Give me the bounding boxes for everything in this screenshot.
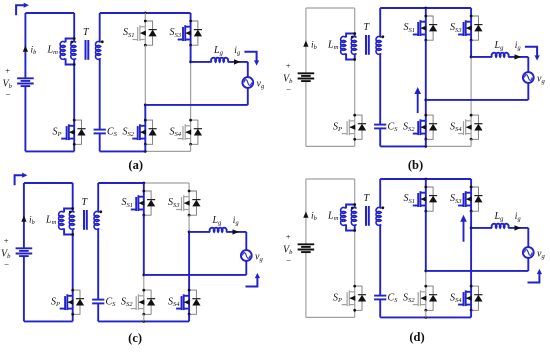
svg-text:(c): (c) — [128, 331, 142, 345]
svg-text:+: + — [286, 231, 291, 241]
svg-text:(b): (b) — [408, 158, 423, 172]
svg-text:+: + — [286, 60, 291, 70]
svg-text:−: − — [4, 259, 9, 269]
svg-text:−: − — [286, 255, 291, 265]
svg-text:(a): (a) — [128, 158, 143, 172]
svg-text:−: − — [6, 89, 11, 99]
svg-text:−: − — [286, 84, 291, 94]
svg-text:+: + — [4, 235, 9, 245]
svg-text:+: + — [5, 65, 10, 75]
svg-text:(d): (d) — [409, 330, 424, 344]
